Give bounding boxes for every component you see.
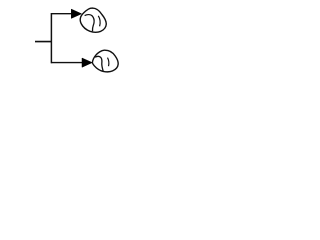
top ear inner right arc [98, 16, 100, 26]
bottom arrowhead [82, 58, 92, 67]
input stub wire [35, 41, 52, 43]
top branch wire [51, 13, 72, 15]
top ear outer outline [80, 8, 106, 32]
bottom ear inner crescent [95, 56, 103, 71]
bottom branch wire [51, 62, 82, 64]
bottom ear inner right arc [108, 58, 109, 67]
vertical bus wire [50, 13, 52, 63]
top ear inner crescent [85, 15, 95, 32]
top arrowhead [71, 9, 81, 18]
bottom ear outer outline [92, 50, 118, 72]
